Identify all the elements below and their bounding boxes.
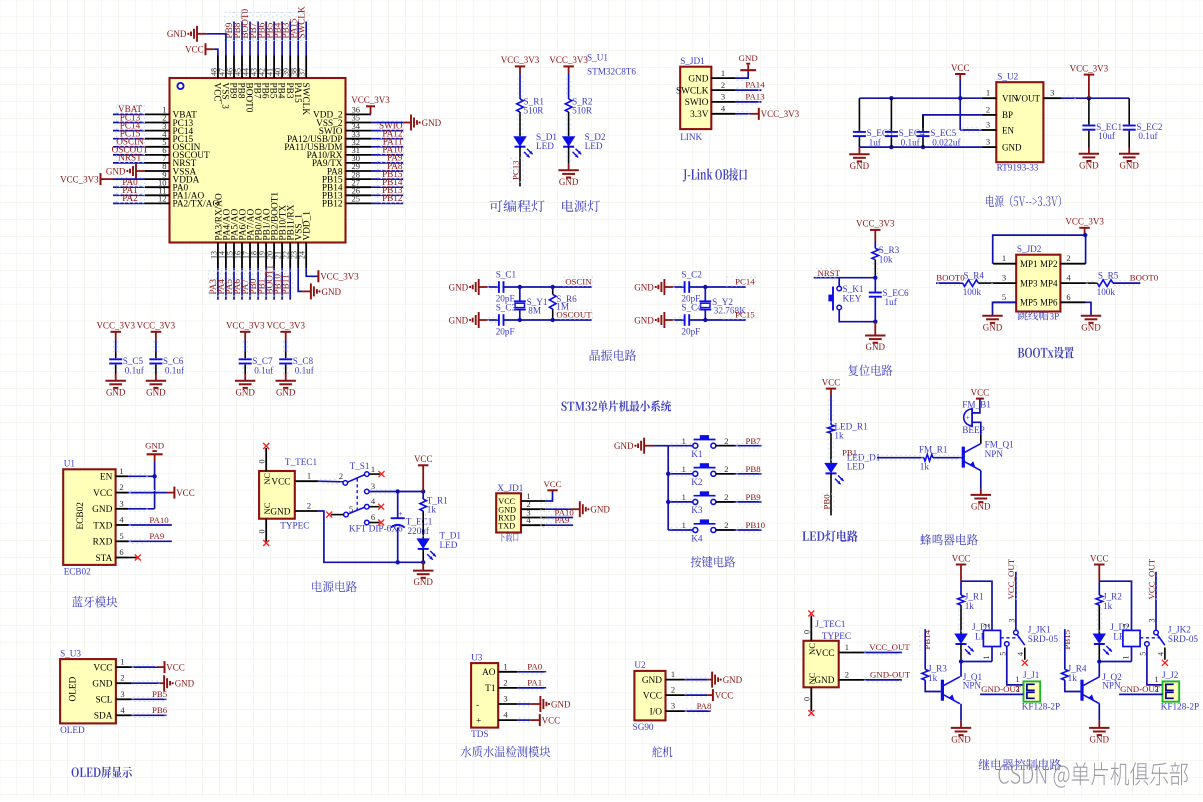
junction VIN/S_EC4: [889, 96, 893, 100]
wire MP6 to GND: [1086, 302, 1091, 315]
wire net GND-OUT (J_J1): [980, 693, 1023, 695]
svg-text:GND: GND: [449, 315, 469, 325]
junction crystal top: [703, 285, 707, 289]
wire net PA5: [233, 268, 235, 300]
junction T_R1 top: [421, 489, 425, 493]
svg-text:VCC: VCC: [176, 488, 195, 498]
U3 pin 3 -: [498, 703, 517, 705]
svg-text:ECB02: ECB02: [76, 502, 86, 530]
MCU pin 1 VBAT: [145, 113, 170, 115]
jumper S_JD2 body: [1016, 255, 1060, 312]
svg-text:GND: GND: [1119, 160, 1139, 170]
svg-text:GND: GND: [614, 441, 634, 451]
svg-text:1: 1: [682, 436, 686, 446]
U1 pin 1 EN: [116, 475, 128, 477]
wire VCC to J_R2: [1098, 581, 1100, 595]
svg-text:2: 2: [307, 500, 311, 510]
net label PB13: [378, 186, 404, 195]
wire net PA10 (X_JD1): [545, 517, 573, 519]
svg-text:LED: LED: [847, 462, 865, 472]
MCU pin 40 PB4: [281, 55, 283, 78]
power port VCC (T block): [418, 464, 429, 466]
svg-text:PC14: PC14: [735, 277, 755, 287]
connector T_TEC1 body: [259, 471, 295, 519]
T_TEC1 NC pin bottom: [265, 519, 267, 542]
svg-text:PA13: PA13: [745, 92, 765, 102]
relay coil J_JK1 SRD-05: [983, 630, 1000, 646]
svg-text:S_C3: S_C3: [496, 303, 517, 313]
wire VOUT rail: [1062, 97, 1130, 99]
wire relay pin5 to J_J1 pin1: [1007, 646, 1024, 685]
svg-text:5: 5: [349, 504, 353, 514]
svg-text:PA2: PA2: [122, 193, 138, 203]
ground GND (S_C1 left): [478, 279, 480, 295]
svg-text:1: 1: [307, 471, 311, 481]
wire net PB13: [371, 194, 403, 196]
power port VCC_3V3 at VDDA pin 9: [113, 178, 145, 180]
svg-text:VCC: VCC: [93, 663, 112, 673]
net label PB0: [249, 271, 261, 296]
net label PB9: [225, 13, 237, 41]
svg-text:2: 2: [724, 436, 728, 446]
svg-text:GND: GND: [551, 699, 571, 709]
svg-text:1k: 1k: [928, 673, 938, 683]
S_JD1 pin 1 GND: [711, 77, 735, 79]
wire net BOOT1: [273, 268, 275, 300]
ground GND (T block): [422, 562, 424, 570]
svg-text:SWIO: SWIO: [685, 98, 709, 108]
net label OSCIN: [564, 277, 593, 286]
junction crystal bottom: [703, 318, 707, 322]
connector J_TEC1 body: [804, 641, 839, 688]
svg-text:1k: 1k: [1103, 601, 1113, 611]
resistor LED_R1 1k: [828, 425, 835, 433]
crystal S_Y2 32.768K: [704, 287, 706, 301]
S_U2 pin 3 GND: [982, 146, 996, 148]
svg-text:VCC_3V3: VCC_3V3: [856, 219, 895, 229]
wire S_R3 to NRST node: [874, 260, 876, 278]
MCU pin 33 PA12/USB/DP: [346, 138, 372, 140]
junction EN/GND riser: [152, 474, 156, 478]
wire S_D2 to GND: [568, 147, 570, 163]
relay switch common VCC_OUT: [1155, 572, 1157, 630]
svg-text:GND: GND: [413, 577, 433, 587]
svg-text:NPN: NPN: [963, 681, 982, 691]
no-connect switch pin 5: [331, 514, 344, 516]
wire VIN rail: [859, 97, 982, 99]
J_TEC1 NC pin bottom: [810, 687, 812, 711]
power port VCC_3V3 at VDD_1 pin 24: [306, 268, 318, 276]
power port VCC_3V3 (J-Link): [751, 113, 759, 115]
wire J_D2 to collector node: [1098, 644, 1100, 662]
svg-text:PA0: PA0: [527, 662, 542, 672]
no-connect STA: [128, 557, 137, 559]
MCU pin 32 PA11/USB/DM: [346, 146, 372, 148]
MCU pin 35 VSS_2: [346, 122, 372, 124]
wire net PB6: [131, 714, 166, 716]
svg-text:GND: GND: [642, 676, 662, 686]
svg-text:VCC_3V3: VCC_3V3: [1065, 217, 1104, 227]
svg-text:GND: GND: [449, 282, 469, 292]
wire VCC_3V3 to S_R1: [519, 74, 521, 99]
net label PB8: [233, 13, 245, 41]
S_JD2 pin 5 MP5: [993, 301, 1016, 303]
net label PA3: [208, 271, 220, 296]
caption 蜂鸣器电路: [920, 534, 978, 546]
svg-text:VCC_3V3: VCC_3V3: [226, 321, 265, 331]
MCU pin 8 VSSA: [145, 170, 170, 172]
MCU pin 41 PB5: [273, 55, 275, 78]
LED T_D1: [416, 538, 430, 549]
MCU pin 24 VDD_1: [305, 243, 307, 269]
svg-text:VCC_3V3: VCC_3V3: [60, 175, 99, 185]
wire S_JD1 pin4 to VCC_3V3: [735, 113, 751, 115]
svg-text:GND: GND: [951, 735, 971, 745]
svg-text:2: 2: [721, 80, 725, 90]
svg-text:GND: GND: [276, 387, 296, 397]
ground GND (TDS): [530, 703, 540, 705]
wire net PA7: [249, 268, 251, 300]
net label PC13 (rotated): [511, 158, 523, 182]
net label NRST: [816, 269, 838, 278]
TDS U3 body: [471, 663, 498, 728]
svg-text:0: 0: [257, 530, 266, 534]
S_U2 pin 1 VIN: [982, 97, 996, 99]
wire OLED GND: [131, 682, 160, 684]
wire T_R1 to T_D1: [422, 511, 424, 538]
svg-text:PB6: PB6: [152, 705, 168, 715]
wire net PB5: [131, 698, 166, 700]
MCU pin 16 PA6/AO: [241, 243, 243, 269]
MCU pin 21 PB10/TX: [281, 243, 283, 269]
svg-text:J_TEC1: J_TEC1: [815, 619, 846, 629]
resistor T_R1 1k: [422, 492, 424, 500]
wire net PB0: [257, 268, 259, 300]
ground GND (J-Link): [747, 65, 749, 71]
ground GND at VSSA pin 8: [136, 170, 145, 172]
svg-text:0.1uf: 0.1uf: [901, 138, 921, 148]
wire net PA14: [735, 89, 761, 91]
svg-text:2: 2: [671, 685, 675, 695]
X_JD1 pin 1 VCC: [521, 500, 545, 502]
ground GND (S_C4 left): [663, 312, 665, 328]
junction collector node: [1097, 659, 1101, 663]
relay switch pin 5: [1145, 642, 1150, 647]
capacitor S_EC4 0.1uf: [890, 98, 892, 131]
S_JD1 pin 2 SWCLK: [711, 89, 735, 91]
U2 pin 3 I/O: [666, 710, 685, 712]
S_JD2 pin 6 MP6: [1060, 301, 1085, 303]
LED S_D1: [513, 136, 527, 147]
relay switch common VCC_OUT: [1015, 572, 1017, 630]
X_JD1 pin 3 RXD: [521, 517, 545, 519]
ground GND at VSS_3 pin 47: [206, 34, 226, 55]
svg-text:J_J1: J_J1: [1023, 670, 1040, 680]
svg-text:KF128-2P: KF128-2P: [1022, 702, 1060, 712]
capacitor S_C7 0.1uf: [244, 352, 246, 358]
wire switch pin3 to VCC node: [369, 491, 423, 493]
wire GND to S_C3: [487, 319, 499, 321]
capacitor S_C3 20pF (horizontal): [498, 314, 500, 326]
net label BOOT0: [241, 13, 253, 41]
svg-text:3: 3: [120, 689, 124, 699]
MCU pin 10 PA0: [145, 186, 170, 188]
svg-text:8M: 8M: [528, 306, 541, 316]
wire VCC branch to coil: [1099, 581, 1131, 630]
svg-text:2: 2: [503, 677, 507, 687]
wire TDS pin4 to VCC: [517, 719, 530, 721]
junction VIN/VCC: [958, 96, 962, 100]
svg-text:2: 2: [724, 492, 728, 502]
svg-text:MP1: MP1: [1020, 259, 1038, 269]
svg-text:37: 37: [298, 68, 307, 76]
LED J_D1: [954, 634, 968, 645]
svg-text:GND: GND: [422, 118, 442, 128]
MCU pin 34 SWIO: [346, 130, 372, 132]
svg-text:3: 3: [1007, 619, 1016, 623]
net label PB7: [249, 13, 261, 41]
resistor S_R2 510R: [568, 98, 570, 100]
wire GND to S_C1: [487, 286, 499, 288]
wire NRST node left: [814, 277, 876, 279]
power port VCC_3V3 (S_C8): [280, 331, 291, 333]
switch T_S1 lever upper: [348, 475, 365, 483]
MCU S_U1 body: [170, 78, 346, 243]
net label PA6: [233, 271, 245, 296]
switch T_S1 terminals: [343, 481, 348, 486]
capacitor S_C6 0.1uf: [155, 352, 157, 358]
svg-text:2: 2: [1066, 253, 1070, 263]
svg-text:VCC_3V3: VCC_3V3: [1070, 63, 1109, 73]
MCU pin 44 BOOT0: [249, 55, 251, 78]
svg-text:SWCLK: SWCLK: [676, 86, 709, 96]
svg-text:GND: GND: [92, 680, 112, 690]
wire S_C4 to PC15 rail: [689, 319, 746, 321]
svg-text:4: 4: [1016, 652, 1025, 656]
svg-text:VCC_OUT: VCC_OUT: [869, 642, 910, 652]
net label VBAT: [117, 105, 145, 114]
caption OLED屏显示: [72, 766, 132, 778]
J_TEC1 NC pin top: [810, 616, 812, 641]
button K3: [693, 499, 698, 504]
svg-text:VCC_3V3: VCC_3V3: [351, 95, 390, 105]
svg-text:GND: GND: [814, 676, 834, 686]
ground GND (S_EC1): [1088, 148, 1090, 154]
svg-text:S_R5: S_R5: [1098, 270, 1119, 280]
junction NRST: [873, 276, 877, 280]
buzzer FM_B1 BEEP: [964, 409, 972, 426]
svg-text:1uf: 1uf: [869, 138, 882, 148]
svg-text:10k: 10k: [879, 255, 893, 265]
caption BOOTx设置: [1018, 347, 1074, 359]
wire servo GND: [684, 679, 707, 681]
svg-text:GND-OUT: GND-OUT: [981, 684, 1022, 694]
wire net VBAT: [113, 113, 145, 115]
wire LED_D1 to PB0: [830, 473, 832, 515]
svg-text:LED: LED: [536, 141, 554, 151]
svg-text:1: 1: [1015, 674, 1019, 684]
no-connect switch pin 6: [369, 522, 380, 524]
MCU pin 37 SWCLK: [305, 55, 307, 78]
U2 pin 2 VCC: [666, 694, 685, 696]
ground GND (S_C7): [244, 374, 246, 381]
svg-text:1: 1: [1002, 253, 1006, 263]
wire S_K1 to GND node: [839, 310, 875, 322]
svg-text:1: 1: [682, 464, 686, 474]
resistor S_R3 10k: [872, 248, 879, 259]
svg-text:PB0: PB0: [821, 494, 831, 510]
svg-text:VCC: VCC: [1090, 553, 1109, 563]
svg-text:VCC_3V3: VCC_3V3: [549, 55, 588, 65]
junction GND rail / T_EC1: [396, 560, 400, 564]
wire T_TEC1 VCC to switch: [318, 480, 343, 483]
wire J_R4 to base: [1065, 680, 1081, 691]
ground GND at VSS_2 pin 35: [371, 122, 403, 124]
caption 蓝牙模块: [72, 596, 117, 608]
wire net PA9 (X_JD1): [545, 524, 573, 526]
power port VCC (relay J_R2): [1094, 564, 1105, 566]
net label PA10: [378, 145, 404, 154]
svg-text:100k: 100k: [963, 287, 982, 297]
svg-text:SWCLK: SWCLK: [300, 83, 310, 116]
wire net PB15: [371, 178, 403, 180]
capacitor S_C5 0.1uf: [115, 352, 117, 358]
wire K4 to PB10: [716, 529, 762, 531]
svg-text:K1: K1: [691, 449, 703, 459]
net label PB11: [281, 271, 293, 296]
svg-text:TDS: TDS: [471, 729, 488, 739]
svg-text:1k: 1k: [965, 601, 975, 611]
ground GND (MP6): [1081, 315, 1101, 317]
wire TDS pin3 to GND: [517, 703, 530, 705]
resistor J_R2 1k: [1096, 595, 1103, 605]
wire net PB1: [877, 457, 924, 459]
junction crystal bottom: [518, 318, 522, 322]
wire BOOTx top loop: [993, 235, 1086, 264]
svg-text:3: 3: [671, 701, 675, 711]
wire S_R1 to S_D1: [519, 112, 521, 136]
svg-text:1: 1: [120, 657, 124, 667]
svg-text:24: 24: [298, 251, 307, 259]
svg-text:510R: 510R: [524, 106, 545, 116]
svg-text:LED: LED: [440, 540, 458, 550]
svg-text:PB12: PB12: [382, 193, 403, 203]
ground GND (S_C2 left): [663, 279, 665, 295]
junction resistor bottom: [551, 318, 555, 322]
svg-text:VCC_3V3: VCC_3V3: [501, 55, 540, 65]
capacitor S_EC5 0.022uf: [922, 115, 924, 131]
svg-text:GND: GND: [723, 675, 743, 685]
resistor S_R5 100k: [1097, 280, 1113, 287]
wire net GND-OUT (J_J2): [1119, 693, 1162, 695]
MCU pin 28 PB15: [346, 178, 372, 180]
capacitor S_EC3 1uf: [858, 98, 860, 131]
svg-text:TXD: TXD: [498, 521, 515, 530]
MCU pin 30 PA9/TX: [346, 162, 372, 164]
svg-text:STM32C8T6: STM32C8T6: [587, 67, 636, 77]
power port VCC at VCC pin 48: [214, 49, 218, 55]
svg-text:PB9: PB9: [746, 492, 762, 502]
net label PA2: [117, 194, 145, 203]
net label PB0 (rotated): [822, 494, 834, 510]
svg-text:PB1: PB1: [842, 447, 857, 457]
svg-text:S_R4: S_R4: [964, 270, 985, 280]
svg-text:1uf: 1uf: [885, 297, 898, 307]
J_TEC1 pin 2 GND: [839, 679, 864, 681]
wire net PC14: [113, 130, 145, 132]
regulator S_U2 body: [996, 82, 1043, 162]
svg-text:5: 5: [119, 531, 123, 541]
J_TEC1 pin 1 VCC: [839, 652, 864, 654]
svg-text:OLED: OLED: [60, 725, 85, 735]
wire net PB6: [265, 22, 267, 56]
wire buzzer to FM_Q1 collector: [972, 422, 981, 434]
svg-text:T1: T1: [485, 684, 496, 694]
wire S_C1 to OSCIN rail: [504, 286, 592, 288]
svg-text:NRST: NRST: [818, 268, 841, 278]
net label PB6: [257, 13, 269, 41]
svg-text:PB11: PB11: [280, 274, 290, 294]
svg-text:SDA: SDA: [94, 712, 113, 722]
svg-text:GND-OUT: GND-OUT: [1120, 684, 1161, 694]
svg-text:NRST: NRST: [118, 153, 142, 163]
MCU pin 26 PB13: [346, 194, 372, 196]
svg-text:VCC: VCC: [414, 454, 433, 464]
net label PB15: [378, 170, 404, 179]
net label BOOT1: [265, 271, 277, 296]
S_JD2 pin 1 MP1: [993, 263, 1016, 265]
power port VCC (bluetooth): [167, 492, 175, 494]
wire GND to S_C2: [673, 286, 685, 288]
wire S_R2 to S_D2: [568, 112, 570, 136]
wire net PB8: [241, 22, 243, 56]
wire net PB12: [371, 202, 403, 204]
caption 复位电路: [848, 365, 892, 377]
S_JD2 pin 4 MP4: [1060, 282, 1085, 284]
svg-text:K3: K3: [691, 505, 703, 515]
net label PB4: [273, 13, 285, 41]
svg-text:2: 2: [982, 624, 991, 628]
wire net OSCOUT: [113, 154, 145, 156]
net label OSCOUT: [117, 145, 145, 154]
wire net PA2: [113, 202, 145, 204]
no-connect switch pin 4: [369, 506, 380, 508]
svg-text:1k: 1k: [920, 462, 930, 472]
relay switch dashed link: [1001, 637, 1019, 639]
svg-text:3.3V: 3.3V: [690, 110, 709, 120]
net label PA8: [378, 161, 404, 170]
svg-text:GND: GND: [688, 74, 708, 84]
svg-text:0: 0: [802, 697, 811, 701]
wire net PB7: [257, 22, 259, 56]
svg-text:3: 3: [1148, 619, 1157, 623]
svg-text:GND: GND: [866, 342, 886, 352]
svg-text:2: 2: [724, 464, 728, 474]
wire net PA9: [371, 162, 403, 164]
svg-text:1k: 1k: [427, 505, 437, 515]
svg-text:SCL: SCL: [95, 696, 112, 706]
svg-text:EN: EN: [100, 473, 113, 483]
wire EN/GND to ground: [154, 462, 156, 509]
net label PA9: [378, 153, 404, 162]
MCU pin 12 PA2/TX/AO: [145, 202, 170, 204]
ground GND (MP5): [982, 315, 1002, 317]
svg-text:S_C2: S_C2: [681, 270, 702, 280]
svg-text:0.1uf: 0.1uf: [254, 365, 274, 375]
power port VCC (TDS): [530, 719, 540, 721]
svg-text:MP4: MP4: [1040, 278, 1058, 288]
S_JD2 pin 2 MP2: [1060, 263, 1085, 265]
